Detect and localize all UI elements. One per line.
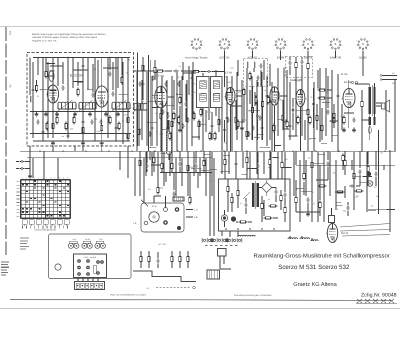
wire bbox=[307, 57, 309, 63]
tone filter dashed box bbox=[286, 56, 313, 78]
junction on bus bbox=[246, 151, 247, 152]
junction bbox=[331, 97, 332, 98]
tube EABC80 bbox=[268, 87, 279, 105]
wire bbox=[300, 150, 302, 152]
resistor bbox=[281, 163, 283, 168]
wire bbox=[296, 211, 320, 213]
wire link bbox=[335, 202, 341, 204]
wire bbox=[33, 140, 130, 142]
resistor bbox=[189, 198, 191, 203]
grid row labels bbox=[17, 181, 20, 183]
junction bbox=[228, 162, 229, 163]
ground bbox=[82, 141, 84, 144]
coil bbox=[238, 235, 248, 236]
svg-text:1: 1 bbox=[22, 177, 23, 180]
wire bbox=[211, 112, 213, 140]
wire bbox=[374, 114, 376, 117]
resistor bbox=[187, 166, 189, 171]
wire bbox=[127, 146, 129, 151]
resistor bbox=[52, 124, 54, 129]
wire bbox=[179, 167, 181, 173]
resistor bbox=[200, 110, 202, 115]
capacitor bbox=[312, 102, 315, 104]
resistor bbox=[77, 90, 79, 95]
wire bbox=[319, 165, 321, 200]
wire bbox=[281, 168, 283, 179]
socket: tuning indicator bbox=[149, 212, 159, 222]
resistor bbox=[171, 164, 173, 169]
wire bbox=[301, 236, 303, 239]
resistor bbox=[154, 68, 156, 73]
capacitor bbox=[326, 162, 329, 164]
terminal strip X2 bbox=[75, 282, 105, 290]
wire bbox=[284, 213, 286, 222]
junction bbox=[274, 151, 275, 152]
wire bbox=[331, 74, 333, 142]
wire bbox=[145, 152, 147, 176]
capacitor bbox=[31, 88, 34, 90]
wire bbox=[193, 152, 195, 176]
capacitor bbox=[291, 108, 294, 110]
wire bbox=[146, 151, 148, 163]
wire bbox=[115, 108, 117, 136]
junction bbox=[249, 165, 250, 166]
wire bbox=[252, 114, 254, 140]
wire bbox=[369, 124, 371, 140]
capacitor bbox=[114, 126, 117, 128]
svg-text:Taste UKW gedrückt: Taste UKW gedrückt bbox=[34, 229, 56, 232]
terminal board bbox=[74, 254, 107, 278]
bridge rectifier Gr1 bbox=[262, 183, 272, 193]
wire bbox=[187, 158, 189, 196]
socket b2 bbox=[175, 207, 180, 212]
wire bbox=[157, 252, 159, 258]
capacitor bbox=[61, 86, 64, 88]
coil bbox=[300, 238, 310, 239]
wire bbox=[146, 72, 148, 146]
resistor bbox=[142, 66, 144, 71]
capacitor bbox=[174, 69, 176, 72]
junction bbox=[107, 97, 108, 98]
wire link bbox=[119, 94, 128, 96]
wire bbox=[16, 168, 19, 170]
junction bbox=[292, 109, 293, 110]
wire bbox=[149, 151, 151, 160]
wire bbox=[153, 163, 155, 172]
wire bbox=[261, 209, 263, 222]
junction bbox=[330, 120, 331, 121]
resistor bbox=[280, 196, 282, 201]
wire bbox=[29, 151, 31, 175]
resistor bbox=[338, 191, 343, 193]
wire bbox=[45, 58, 47, 71]
capacitor bbox=[256, 114, 259, 116]
wire bbox=[202, 108, 204, 120]
jack connector row X1 bbox=[202, 238, 242, 242]
coil assembly L1 (FM input) bbox=[56, 100, 76, 113]
junction bbox=[52, 65, 53, 66]
wire link bbox=[152, 94, 158, 96]
resistor bbox=[273, 126, 275, 131]
heater wire bbox=[362, 51, 364, 77]
wire bbox=[179, 252, 181, 256]
wire bbox=[319, 68, 321, 142]
wire to dial lamp bbox=[340, 224, 390, 228]
wire bbox=[246, 68, 248, 86]
wire bbox=[369, 114, 371, 117]
wire bbox=[187, 262, 189, 268]
tube socket diagram EABC 80 bbox=[328, 37, 343, 52]
junction bbox=[40, 89, 41, 90]
wire bbox=[375, 177, 377, 186]
wire bbox=[101, 146, 103, 151]
wire link bbox=[47, 63, 55, 65]
dial lamp La1 bbox=[367, 181, 373, 187]
wire bbox=[176, 72, 178, 151]
wire bbox=[42, 128, 44, 130]
wire bbox=[169, 152, 171, 176]
resistor bbox=[320, 97, 325, 99]
wire bbox=[198, 120, 200, 140]
terminal bbox=[249, 228, 251, 230]
resistor bbox=[148, 257, 150, 262]
coil assembly L3 (AM) bbox=[110, 100, 130, 113]
wire bbox=[274, 150, 276, 152]
wire bbox=[165, 196, 167, 208]
wire bbox=[30, 133, 131, 135]
wire bbox=[77, 278, 79, 282]
resistor bbox=[297, 118, 299, 123]
capacitor bbox=[194, 164, 197, 166]
tube ECC85a bbox=[46, 85, 59, 103]
resistor bbox=[35, 86, 37, 91]
junction bbox=[299, 190, 300, 191]
wire bbox=[127, 151, 129, 178]
wire bbox=[160, 108, 162, 151]
wire bbox=[273, 217, 278, 219]
wire link bbox=[310, 138, 316, 140]
tube EL84 bbox=[342, 88, 356, 107]
resistor bbox=[261, 204, 263, 209]
junction on bus bbox=[200, 151, 201, 152]
wire bbox=[231, 76, 233, 151]
junction on bus bbox=[269, 151, 270, 152]
resistor bbox=[153, 158, 155, 163]
resistor bbox=[140, 257, 142, 262]
svg-text:Tfb.: Tfb. bbox=[9, 84, 12, 88]
capacitor bbox=[259, 64, 262, 66]
wire bbox=[67, 62, 69, 138]
wire bbox=[301, 65, 303, 75]
svg-text:L.Sp: L.Sp bbox=[72, 238, 76, 241]
resistor bbox=[127, 118, 129, 123]
resistor bbox=[121, 78, 123, 83]
wire bbox=[251, 76, 253, 140]
wire bbox=[266, 193, 268, 197]
wire bbox=[97, 60, 99, 88]
wire bbox=[82, 278, 84, 282]
wire bbox=[52, 58, 54, 139]
svg-text:10n: 10n bbox=[280, 99, 283, 102]
wire bbox=[321, 108, 323, 140]
wire bbox=[127, 58, 129, 139]
winding bbox=[373, 87, 375, 114]
capacitor bbox=[350, 184, 352, 187]
wire bbox=[327, 89, 332, 91]
resistor bbox=[157, 188, 159, 193]
wire bbox=[20, 150, 396, 152]
wire bbox=[263, 60, 265, 80]
resistor bbox=[333, 118, 335, 123]
tube socket diagram ECC 85 bbox=[217, 37, 232, 52]
wire bbox=[36, 80, 38, 85]
wire bbox=[367, 173, 369, 186]
coil bbox=[30, 96, 31, 102]
wire to dial lamp 2 bbox=[340, 230, 390, 232]
wire bbox=[218, 108, 220, 132]
capacitor bbox=[374, 172, 377, 174]
wire bbox=[157, 264, 159, 268]
junction bbox=[171, 83, 172, 84]
resistor bbox=[311, 163, 313, 168]
capacitor bbox=[177, 82, 180, 84]
wire link bbox=[318, 154, 325, 156]
svg-text:T.Sp: T.Sp bbox=[99, 238, 103, 241]
wire bbox=[87, 58, 89, 91]
wire bbox=[254, 92, 256, 106]
wire bbox=[289, 66, 291, 75]
wire bbox=[351, 160, 353, 170]
relay box K1 bbox=[218, 249, 227, 257]
resistor bbox=[46, 124, 48, 129]
junction bbox=[283, 128, 284, 129]
wire bbox=[82, 146, 84, 151]
resistor bbox=[316, 116, 318, 121]
capacitor bbox=[306, 198, 309, 200]
wire bbox=[311, 238, 313, 241]
capacitor bbox=[284, 120, 287, 122]
small circle terminal bbox=[193, 286, 196, 289]
wire link bbox=[72, 81, 83, 83]
wire bbox=[134, 70, 156, 72]
rear panel outline bbox=[49, 234, 132, 279]
resistor bbox=[179, 98, 181, 103]
junction bbox=[145, 163, 146, 164]
wire bbox=[167, 112, 169, 114]
bottom rule bbox=[10, 300, 392, 301]
capacitor bbox=[265, 94, 268, 96]
svg-text:5: 5 bbox=[38, 177, 39, 180]
rect above magic eye bbox=[329, 216, 335, 223]
junction bbox=[209, 172, 210, 173]
terminal circle Kl2 bbox=[355, 81, 357, 83]
socket b4 bbox=[144, 221, 148, 225]
junction bbox=[187, 165, 188, 166]
junction bbox=[325, 101, 326, 102]
capacitor bbox=[207, 70, 209, 73]
junction bbox=[313, 103, 314, 104]
wire bbox=[241, 80, 243, 151]
wire bbox=[171, 76, 173, 151]
wire bbox=[369, 84, 371, 87]
chassis step wire bbox=[133, 271, 196, 282]
wire bbox=[154, 60, 156, 66]
wire bbox=[347, 202, 349, 205]
ground bbox=[89, 112, 91, 115]
junction bbox=[242, 159, 243, 160]
wire bbox=[269, 64, 271, 86]
wire bbox=[289, 104, 291, 140]
wire bbox=[295, 204, 297, 212]
terminal bbox=[261, 228, 263, 230]
junction bbox=[87, 89, 88, 90]
wire bbox=[259, 187, 262, 189]
wire bbox=[235, 100, 237, 130]
wire link bbox=[152, 107, 158, 109]
wire bbox=[183, 72, 196, 74]
wire bbox=[167, 120, 169, 126]
wire bbox=[229, 150, 231, 152]
wire bbox=[348, 106, 350, 128]
junction bbox=[171, 172, 172, 173]
wire bbox=[356, 185, 360, 187]
wire bbox=[231, 203, 233, 212]
wire bbox=[307, 69, 309, 75]
wire bbox=[47, 62, 49, 138]
capacitor bbox=[240, 120, 243, 122]
wire bbox=[307, 90, 309, 109]
wire bbox=[245, 198, 247, 202]
junction bbox=[199, 165, 200, 166]
wire bbox=[257, 119, 259, 140]
wire bbox=[367, 151, 369, 164]
svg-text:6: 6 bbox=[42, 177, 43, 180]
wire link bbox=[302, 190, 313, 192]
capacitor bbox=[247, 132, 250, 134]
wire link bbox=[330, 120, 338, 122]
capacitor bbox=[210, 124, 213, 126]
resistor bbox=[237, 191, 239, 196]
svg-text:25k: 25k bbox=[224, 141, 227, 144]
wire link bbox=[284, 128, 289, 130]
wire bbox=[37, 58, 39, 76]
heater wire bbox=[252, 51, 254, 59]
wire bbox=[139, 151, 141, 160]
wire bbox=[257, 82, 259, 86]
wire bbox=[275, 188, 277, 190]
wire bbox=[151, 152, 153, 176]
wire link bbox=[50, 70, 55, 72]
heater wire bbox=[280, 51, 282, 61]
wire bbox=[311, 152, 313, 222]
svg-text:10: 10 bbox=[59, 177, 61, 180]
wire bbox=[246, 151, 248, 157]
ground bbox=[307, 212, 309, 215]
svg-text:Platte mit Anschlußleisten von: Platte mit Anschlußleisten von außen bbox=[110, 294, 147, 297]
svg-text:1M: 1M bbox=[301, 211, 304, 214]
resistor bbox=[193, 114, 195, 119]
wire link bbox=[257, 133, 264, 135]
junction bbox=[109, 57, 110, 58]
wire bbox=[82, 116, 84, 140]
coil bbox=[247, 62, 248, 68]
rear connection panel bbox=[141, 203, 184, 232]
wire bbox=[254, 181, 256, 209]
junction bbox=[140, 251, 141, 252]
svg-text:1k: 1k bbox=[178, 76, 180, 79]
wire bbox=[165, 70, 172, 72]
wire bbox=[203, 151, 205, 160]
terminal bbox=[237, 228, 239, 230]
wire bbox=[317, 70, 319, 88]
svg-text:EM 34: EM 34 bbox=[341, 232, 349, 235]
resistor bbox=[320, 185, 325, 187]
wire bbox=[153, 151, 155, 157]
wire bbox=[77, 62, 79, 86]
wire bbox=[327, 97, 332, 99]
junction bbox=[288, 135, 289, 136]
junction bbox=[309, 138, 310, 139]
resistor bbox=[319, 203, 321, 208]
wire bbox=[173, 173, 175, 191]
svg-text:1k: 1k bbox=[336, 208, 338, 211]
wire bbox=[175, 158, 177, 196]
wire bbox=[257, 151, 259, 163]
wire bbox=[205, 110, 207, 132]
left margin rule bbox=[5, 27, 7, 255]
wire bbox=[97, 278, 99, 282]
wire bbox=[348, 80, 350, 84]
wire bbox=[82, 62, 84, 144]
wire link bbox=[177, 93, 184, 95]
wire bbox=[57, 158, 59, 180]
junction bbox=[263, 162, 264, 163]
wire bbox=[27, 157, 212, 159]
junction bbox=[187, 172, 188, 173]
junction bbox=[296, 188, 297, 189]
resistor bbox=[198, 122, 200, 127]
coil assembly L4 (AM osc) bbox=[132, 101, 147, 114]
capacitor bbox=[145, 164, 148, 166]
junction bbox=[143, 172, 144, 173]
svg-text:15k: 15k bbox=[107, 64, 110, 67]
wire bbox=[146, 169, 148, 172]
wire bbox=[115, 58, 117, 142]
wire bbox=[252, 86, 254, 107]
svg-text:1k: 1k bbox=[203, 160, 205, 163]
wire bbox=[257, 100, 259, 113]
resistor bbox=[267, 98, 269, 103]
wire link bbox=[336, 205, 343, 207]
junction on bus bbox=[361, 151, 362, 152]
winding bbox=[256, 183, 258, 207]
wire bbox=[179, 262, 181, 268]
wire bbox=[101, 58, 103, 142]
wire bus bbox=[30, 111, 130, 113]
capacitor bbox=[274, 190, 277, 192]
wire bbox=[29, 146, 31, 151]
leader line bbox=[141, 200, 148, 206]
wire link bbox=[273, 157, 278, 159]
wire link bbox=[260, 147, 270, 149]
wire bbox=[137, 53, 139, 147]
wire bbox=[224, 210, 226, 215]
wire bbox=[394, 80, 396, 151]
junction bbox=[205, 165, 206, 166]
wire bbox=[301, 57, 303, 59]
wire bbox=[179, 106, 181, 128]
wire bbox=[333, 104, 335, 128]
